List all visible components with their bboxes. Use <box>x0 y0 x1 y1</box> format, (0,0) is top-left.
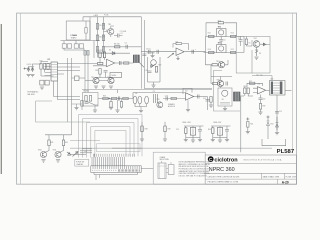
resistor R45 <box>247 122 249 128</box>
transistor TR1 <box>108 28 114 34</box>
resistor R30 <box>247 88 249 94</box>
capacitor C17 <box>118 97 120 101</box>
wire IC6 out <box>194 96 208 98</box>
ponte label box <box>75 160 89 167</box>
wire module1 rail <box>184 125 204 127</box>
resistor R41 <box>48 140 50 146</box>
transistor TR5 <box>93 77 99 83</box>
wire R47 <box>72 104 83 110</box>
wire band to opamp <box>160 93 186 99</box>
border frame outer <box>17 13 297 184</box>
svg-text:R11: R11 <box>208 33 211 35</box>
wire +40V rail <box>83 16 141 18</box>
svg-text:R48: R48 <box>145 128 148 130</box>
wire branch 1 <box>48 135 50 140</box>
scan crease line <box>70 147 272 149</box>
resistor R11 <box>209 35 214 37</box>
ground P1 <box>40 87 44 89</box>
transformer T2 stripes <box>235 92 239 101</box>
wire to IC5 <box>252 76 272 81</box>
resistor R12 <box>231 35 236 37</box>
resistor R3 <box>96 35 98 41</box>
TR4 internals <box>255 41 259 47</box>
wire chain x240 <box>240 97 242 153</box>
wire C22 <box>226 126 228 140</box>
resistor R21 <box>103 52 105 58</box>
notes box outline <box>153 152 205 184</box>
svg-text:TR9: TR9 <box>157 99 160 101</box>
resistor R32 feedback <box>250 82 255 84</box>
svg-text:PROJETO. REPROGRAF. LT. 17/98: PROJETO. REPROGRAF. LT. 17/98 <box>208 181 238 184</box>
capacitor C1 <box>118 34 120 38</box>
capacitor C3 <box>149 50 151 54</box>
title block cell divider data <box>260 173 262 179</box>
resistor R44 <box>212 128 214 134</box>
svg-text:TR4: TR4 <box>254 38 257 40</box>
svg-text:D4 D5: D4 D5 <box>27 64 32 66</box>
switch S1 body <box>158 163 166 179</box>
svg-text:R2 47K: R2 47K <box>99 25 105 27</box>
diode D10 <box>67 152 71 155</box>
output stage box <box>236 36 270 73</box>
trimmer P5 <box>190 128 195 136</box>
wire fb loop <box>173 44 176 48</box>
svg-text:R42: R42 <box>65 142 68 144</box>
wire gnd stub2 <box>153 82 155 85</box>
scan crease dark part <box>112 147 142 149</box>
resistor R2 <box>96 24 98 30</box>
svg-text:R14: R14 <box>208 49 211 51</box>
resistor R28 <box>213 82 218 84</box>
connector body <box>91 166 141 173</box>
wire chain top <box>148 57 161 82</box>
wire band main <box>98 98 133 100</box>
ground R48 <box>140 139 144 141</box>
svg-text:TR11: TR11 <box>53 149 57 151</box>
wire stage rail lower <box>204 52 245 54</box>
capacitor CE3 oval <box>145 96 149 104</box>
svg-text:R33: R33 <box>262 105 265 107</box>
wire IC4 in <box>253 88 258 92</box>
connector comb wires <box>92 157 124 166</box>
connector stub 2 <box>99 175 101 179</box>
svg-text:+40V: +40V <box>93 15 98 17</box>
resistor R19 <box>47 64 49 70</box>
capacitor C10 <box>148 71 152 73</box>
wire output corner <box>206 36 213 64</box>
capacitor C18 drop <box>110 102 112 108</box>
resistor R20 <box>99 52 101 58</box>
meter hatch <box>220 103 230 105</box>
connector pin labels <box>93 154 96 157</box>
ground R43 <box>184 140 188 142</box>
title block cell divider a20 <box>277 179 279 184</box>
resistor R37 <box>112 97 117 99</box>
resistor R48 <box>141 126 143 132</box>
trim arrow A1 <box>73 152 79 157</box>
oscillator box X2 <box>216 45 226 53</box>
junction dot band <box>109 98 110 99</box>
IC1 pin hatch <box>51 65 57 78</box>
op-amp IC3 <box>107 59 115 66</box>
capacitor C6 <box>219 40 223 42</box>
resistor R18 <box>43 64 45 70</box>
wire IC4 out <box>266 89 269 91</box>
wire R44 <box>212 126 214 140</box>
wire band lower <box>85 80 108 82</box>
ground band g1 <box>93 110 97 112</box>
connector dense contacts <box>118 169 139 171</box>
svg-text:D1: D1 <box>109 49 111 51</box>
plus mark <box>24 68 26 70</box>
wire bus x67 <box>67 58 69 122</box>
wire P5 <box>192 126 194 140</box>
IC5 pin bar right <box>280 82 283 95</box>
ground D4 <box>26 75 30 77</box>
capacitor C15 <box>275 112 279 114</box>
resistor R1 <box>85 28 87 34</box>
wire branch 2 <box>63 135 65 140</box>
svg-text:TR10: TR10 <box>38 149 42 151</box>
wire T2 out <box>240 95 244 97</box>
wire driver left leg <box>207 97 209 111</box>
resistor R13 top <box>218 22 223 24</box>
ground R49 <box>163 139 167 141</box>
svg-text:FL.NR. 1/98: FL.NR. 1/98 <box>286 176 296 178</box>
ground C22 <box>225 140 229 142</box>
wire bus x71 <box>71 58 73 135</box>
wire fan 3 <box>82 148 92 150</box>
resistor R42 <box>62 140 64 146</box>
svg-text:R45: R45 <box>250 123 253 125</box>
svg-text:R8 10K: R8 10K <box>114 44 121 46</box>
ground C18 <box>109 107 113 109</box>
wire R43 <box>185 126 187 140</box>
relay RL1 body <box>133 55 139 63</box>
diode D11 <box>267 119 270 140</box>
wire fb right <box>182 44 189 50</box>
wire lamp out <box>71 154 86 156</box>
svg-text:C16: C16 <box>262 99 265 101</box>
wire stage rail upper <box>206 35 245 37</box>
wire bus x144 <box>143 20 145 89</box>
resistor R5 <box>102 24 104 30</box>
relay hatch <box>135 55 138 63</box>
resistor R24 below <box>99 69 101 75</box>
svg-text:IC2: IC2 <box>175 42 178 44</box>
IC5 block body <box>270 81 286 96</box>
wire R49 <box>164 122 166 139</box>
wire out rows <box>57 64 85 75</box>
capacitor C23 <box>85 102 89 104</box>
transformer T2 dark <box>234 92 241 101</box>
capacitor C19 <box>166 97 168 101</box>
plus rail mark 2 <box>267 116 270 119</box>
border frame inner right <box>292 13 294 152</box>
capacitor C7 <box>239 40 243 42</box>
wire loop 3 <box>87 123 134 158</box>
driver module box <box>214 71 241 112</box>
svg-text:TR14: TR14 <box>216 61 220 63</box>
wire loop 5 <box>95 131 126 158</box>
diode D4 <box>27 67 30 73</box>
transistor TR8 <box>217 80 223 86</box>
TR9 internals <box>159 102 162 107</box>
svg-text:C7: C7 <box>238 38 240 40</box>
svg-text:R25: R25 <box>158 64 161 66</box>
wire bus x85 <box>84 50 86 93</box>
trimpot arrow TP1 <box>168 53 175 58</box>
svg-text:R41: R41 <box>51 142 54 144</box>
svg-text:BY2: BY2 <box>271 123 274 125</box>
wire R29 link <box>245 87 253 97</box>
ground R47 <box>74 108 78 110</box>
ground TR10 <box>41 160 45 162</box>
pin label dashes <box>95 154 135 157</box>
transistor TR7 <box>151 60 157 66</box>
ground TR6 <box>109 86 113 88</box>
svg-text:IC5: IC5 <box>271 78 274 80</box>
resistor R36 <box>103 97 108 99</box>
svg-text:TRAFO: TRAFO <box>71 36 77 39</box>
transistor TR9 <box>157 102 163 108</box>
diode D1 <box>110 52 116 55</box>
wire band upper link <box>118 90 161 99</box>
ground D5 <box>30 75 34 77</box>
wire TR4 out <box>260 43 270 45</box>
resistor R31 <box>210 97 212 103</box>
resistor R39 drop <box>120 102 122 108</box>
wire mid row <box>104 46 142 48</box>
resistor R22 input <box>98 62 103 64</box>
wire TR14 <box>218 60 228 65</box>
op-amp IC6 <box>186 93 194 100</box>
wire down x94 <box>93 41 95 59</box>
fuse F1 contacts <box>62 44 66 48</box>
svg-text:R24: R24 <box>95 70 98 72</box>
wire under opamp <box>95 72 112 78</box>
connector pin ticks <box>93 166 139 169</box>
wire fan 1 <box>80 150 92 152</box>
wire driver drop <box>210 65 212 84</box>
svg-text:CE: CE <box>135 93 137 95</box>
wire C7 <box>240 36 242 46</box>
resistor R46 <box>212 64 217 66</box>
wire bus x141 <box>140 17 142 89</box>
ground TR12 <box>191 140 195 142</box>
svg-text:NIVEL: NIVEL <box>112 75 117 77</box>
wire C1 <box>114 35 123 37</box>
svg-text:DATA 7 MAIO 1998: DATA 7 MAIO 1998 <box>263 175 279 178</box>
capacitor C4 <box>157 50 159 54</box>
wire lamp rail <box>45 134 72 136</box>
wire corner box <box>262 139 286 146</box>
wire band rail2 <box>144 87 212 89</box>
svg-text:C1: C1 <box>120 33 122 35</box>
IC5 pin bar left <box>271 82 273 95</box>
wire R1 <box>85 21 87 41</box>
wire R20 R21 <box>100 58 105 64</box>
wire B1 diag <box>86 101 98 105</box>
capacitor CE2 oval <box>138 96 142 104</box>
wire loop 1 <box>79 115 143 158</box>
transistor TR6 <box>108 77 114 83</box>
diode D6 <box>150 64 155 68</box>
svg-text:R13: R13 <box>218 20 221 22</box>
resistor Rb2 <box>87 51 89 56</box>
svg-text:A-20: A-20 <box>282 181 289 185</box>
resistor R40 <box>171 97 176 99</box>
shield box outline <box>36 101 90 122</box>
wire C21 <box>199 126 201 140</box>
wire right link <box>243 36 245 52</box>
wire low rows <box>54 97 81 100</box>
wire fb IC6 <box>183 88 192 94</box>
input box B1 <box>83 93 99 107</box>
pot box P3 <box>110 73 122 78</box>
wire R16 <box>246 36 252 46</box>
resistor R14 <box>209 51 214 53</box>
wire R33 down <box>260 100 262 113</box>
diode D2 <box>262 43 267 46</box>
wire res top <box>41 62 48 77</box>
wire emitter drop <box>251 50 253 73</box>
resistor R16 <box>245 39 247 45</box>
wire fan 2 <box>80 152 92 154</box>
svg-text:SELETORA: SELETORA <box>160 158 170 161</box>
notes paragraph <box>179 161 212 178</box>
svg-text:P4: P4 <box>153 91 155 93</box>
resistor Rb1 <box>84 51 86 56</box>
wire mid vertical <box>260 95 262 99</box>
svg-text:C6: C6 <box>224 40 226 42</box>
scan edge left <box>0 24 2 174</box>
wire under IC <box>41 76 57 100</box>
ground M1 <box>223 109 227 111</box>
svg-text:INDUSTRIA ELETRONICA LTDA.: INDUSTRIA ELETRONICA LTDA. <box>243 158 283 161</box>
wire bus x88 <box>87 50 89 93</box>
ground TR5 <box>94 86 98 88</box>
resistor R34 <box>85 96 87 102</box>
capacitor C2 <box>126 45 128 49</box>
ground band g4 <box>139 111 143 113</box>
transistor TR10 <box>40 151 46 157</box>
meter circle <box>222 90 228 96</box>
ground C9 <box>101 86 105 88</box>
wire gnd stubs <box>95 100 188 111</box>
svg-text:R12: R12 <box>231 33 234 35</box>
wire C6 <box>220 37 222 45</box>
logo ciclotron icon <box>208 156 214 162</box>
resistor R43 <box>185 128 187 134</box>
capacitor C22 <box>225 130 229 132</box>
switch S2 body <box>168 165 174 175</box>
wire chain left <box>97 17 99 58</box>
svg-text:C10: C10 <box>145 70 148 72</box>
ground TR4 <box>254 57 258 59</box>
zener D8 <box>276 117 279 130</box>
svg-text:R17: R17 <box>40 60 43 62</box>
wire output IC3 <box>115 62 134 64</box>
wire TR1 base <box>104 26 115 37</box>
wire input stub <box>25 64 42 69</box>
resistor R6 <box>102 35 104 41</box>
oscillator box X1 <box>216 29 226 37</box>
pot P4 bars <box>154 94 158 103</box>
wire box down <box>251 40 253 46</box>
wire R48 <box>141 122 143 139</box>
capacitor C13 <box>226 82 228 86</box>
wire loop feed <box>70 139 100 141</box>
wire module2 rail <box>211 125 231 127</box>
resistor R8 <box>115 46 120 48</box>
capacitor CE1 oval <box>133 96 137 104</box>
wire P6 <box>219 126 221 140</box>
wire driver top <box>211 76 232 78</box>
svg-text:FILTRO: FILTRO <box>84 91 90 93</box>
connector lip <box>94 172 138 174</box>
trim preset P2 <box>45 80 49 85</box>
svg-text:CIRCUITO PRE CONTROLE 36 CHS: CIRCUITO PRE CONTROLE 36 CHS <box>208 176 240 178</box>
capacitor C5 <box>192 50 194 54</box>
svg-text:R36: R36 <box>103 96 106 98</box>
wire fb loop IC4 <box>247 83 263 87</box>
ground R33 <box>258 112 262 114</box>
wire fuse link <box>64 41 84 51</box>
wire input row <box>141 51 176 53</box>
capacitor C11 <box>142 54 146 56</box>
resistor R47 <box>81 101 83 107</box>
capacitor C14 <box>206 100 210 102</box>
wire bottom rail <box>61 40 101 42</box>
svg-text:NPRC 360: NPRC 360 <box>209 167 235 173</box>
wire ovals down <box>135 104 147 107</box>
wire low row <box>98 52 131 54</box>
capacitor C16 <box>259 98 263 100</box>
svg-text:DE 10%. VER TAB. P/ OS AJUSTES: DE 10%. VER TAB. P/ OS AJUSTES. <box>179 174 208 177</box>
resistor R4 <box>96 47 98 53</box>
svg-text:C19: C19 <box>165 96 168 98</box>
svg-text:R44: R44 <box>208 129 211 131</box>
wire loop 4 <box>91 127 130 158</box>
resistor R33 <box>259 104 261 110</box>
ground TR11 <box>56 160 60 162</box>
capacitor C8 <box>120 61 122 65</box>
diode D3 <box>255 50 258 56</box>
svg-text:IC1: IC1 <box>48 59 51 61</box>
transformer box LT1 <box>66 21 90 40</box>
svg-text:IC4: IC4 <box>258 84 261 86</box>
svg-text:REG -15V: REG -15V <box>214 122 223 124</box>
wire R42 down <box>60 146 64 153</box>
capacitor C21 <box>198 130 202 132</box>
svg-text:CN1: CN1 <box>84 151 87 153</box>
op-amp IC2 <box>176 48 184 55</box>
title block cell divider folha <box>283 173 285 179</box>
wire drops <box>111 99 122 109</box>
wire conn right <box>141 168 153 170</box>
meter box M1 <box>218 88 232 106</box>
switch wires <box>162 161 172 173</box>
wire gnd stub <box>152 52 154 56</box>
resistor R38 <box>123 97 128 99</box>
connector pin numbers row <box>93 170 116 171</box>
capacitor C9 below <box>104 71 108 73</box>
svg-text:R32: R32 <box>249 81 252 83</box>
ground IC5 <box>275 133 279 135</box>
wire R13 loop <box>206 23 237 37</box>
wire box right leg <box>89 17 91 41</box>
